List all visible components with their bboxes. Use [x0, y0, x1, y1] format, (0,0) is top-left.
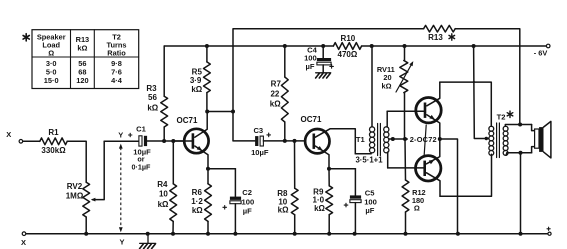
svg-text:1·2: 1·2 — [191, 197, 203, 206]
svg-text:kΩ: kΩ — [314, 204, 325, 213]
table footnote asterisk — [23, 34, 29, 41]
resistor R5 3.9k (Q1 collector load) — [190, 46, 210, 112]
speaker LS1 — [532, 121, 551, 157]
transformer T1 labels — [355, 135, 383, 164]
wire: Q1 collector node jog to C3 branch — [205, 110, 235, 114]
svg-text:kΩ: kΩ — [270, 100, 281, 109]
wire: Q4 collector to T2 primary bottom — [440, 154, 492, 196]
svg-text:22: 22 — [270, 90, 279, 99]
wire: C3 to Q2 base, node dots — [263, 139, 304, 143]
transformer T1 primary winding — [355, 46, 374, 154]
svg-text:R3: R3 — [146, 84, 157, 93]
svg-text:0·1µF: 0·1µF — [132, 163, 152, 172]
wire: input to R1 — [23, 140, 40, 142]
wire: Q2 emitter node — [327, 167, 355, 171]
svg-text:1MΩ: 1MΩ — [66, 191, 84, 200]
transistor Q3 OC72 (output, upper) — [387, 82, 441, 139]
terminal: -6V supply — [534, 44, 550, 57]
svg-text:2-OC72: 2-OC72 — [410, 135, 437, 144]
svg-text:C5: C5 — [365, 188, 375, 197]
svg-text:T2: T2 — [497, 113, 506, 122]
svg-text:10µF: 10µF — [251, 148, 269, 157]
node Y cut marks (dashed) — [118, 130, 124, 246]
resistor R6 1.2k (Q1 emitter) — [191, 169, 211, 234]
ground symbol under C4 — [316, 73, 331, 78]
svg-text:T1: T1 — [356, 135, 366, 144]
transformer T2 primary winding (tapped) — [489, 126, 494, 155]
svg-text:µF: µF — [365, 206, 374, 215]
transformer T1 secondary winding (centre-tapped) — [384, 111, 389, 168]
wire: feedback R13 to secondary top / speaker — [518, 123, 522, 127]
wire: R1 to RV2 top — [67, 141, 86, 182]
svg-text:R5: R5 — [192, 67, 203, 76]
wire: collector branch down to C3 — [233, 112, 255, 141]
svg-text:kΩ: kΩ — [278, 205, 289, 214]
capacitor C4 100uF (supply decoupling) — [304, 45, 333, 72]
capacitor C1 (input coupling, electrolytic) — [129, 124, 152, 171]
wire: RV2 wiper to C1 — [91, 141, 139, 201]
transformer T2 secondary winding — [503, 125, 531, 156]
transistor Q4 OC72 (output, lower) — [388, 139, 441, 196]
wire: secondary bottom to 0V rail — [519, 151, 523, 234]
resistor R4 10k (Q1 bias lower) — [157, 141, 176, 234]
svg-text:3·5·1+1: 3·5·1+1 — [355, 156, 383, 165]
capacitor C5 100uF (Q2 emitter bypass) — [344, 169, 377, 234]
terminal: 0V positive supply (bottom right) — [547, 227, 551, 235]
potentiometer RV2 1M (volume) — [66, 182, 90, 234]
wire: Q1 emitter node — [206, 167, 235, 171]
svg-text:Y: Y — [118, 130, 123, 139]
transformer T1 core — [378, 124, 381, 156]
svg-text:µF: µF — [243, 207, 252, 216]
wire: -6V supply rail — [164, 44, 546, 48]
wire: -6V rail to T2 centre tap — [473, 46, 489, 140]
svg-text:kΩ: kΩ — [77, 44, 87, 53]
svg-text:120: 120 — [76, 76, 88, 85]
svg-text:15·0: 15·0 — [44, 76, 59, 85]
svg-text:kΩ: kΩ — [192, 206, 203, 215]
svg-text:R13: R13 — [428, 33, 443, 42]
resistor R3 56k (Q1 bias upper) — [146, 46, 167, 141]
svg-text:R10: R10 — [341, 34, 356, 43]
ground symbol on 0V rail — [140, 234, 156, 249]
svg-text:X: X — [21, 238, 26, 247]
resistor R7 22k (Q2 bias upper) — [270, 46, 288, 141]
capacitor C2 100uF (Q1 emitter bypass) — [223, 169, 254, 234]
svg-text:100: 100 — [242, 197, 255, 206]
component selection table — [32, 30, 139, 89]
svg-text:R7: R7 — [271, 80, 282, 89]
wire: bottom 0V rail — [26, 232, 548, 236]
resistor R10 (supply decoupling) — [333, 34, 361, 59]
label: 2-OC72 output pair with leader line — [410, 125, 437, 156]
wire: emitters junction to 0V rail — [438, 137, 458, 234]
svg-text:C3: C3 — [253, 126, 263, 135]
svg-text:R6: R6 — [192, 188, 203, 197]
svg-text:C2: C2 — [242, 188, 252, 197]
svg-text:R4: R4 — [157, 180, 168, 189]
svg-text:10: 10 — [159, 190, 168, 199]
svg-text:kΩ: kΩ — [158, 200, 169, 209]
svg-text:Y: Y — [119, 237, 124, 246]
svg-text:kΩ: kΩ — [381, 82, 391, 91]
wire: upper feedback rail (Q1 collector to R13 to output) — [233, 29, 520, 125]
resistor R9 1.0k (Q2 emitter) — [313, 169, 333, 234]
svg-text:470Ω: 470Ω — [338, 50, 358, 59]
svg-text:Ω: Ω — [414, 204, 420, 213]
svg-text:Ω: Ω — [48, 49, 54, 58]
svg-text:4·4: 4·4 — [111, 76, 123, 85]
transistor Q1 OC71 (first AF amp) — [173, 112, 208, 169]
terminal: input X (top left) — [6, 130, 22, 143]
wire: T1 centre tap to bias node — [389, 137, 408, 141]
resistor R12 180 (bias lower) — [402, 139, 426, 234]
svg-text:kΩ: kΩ — [147, 103, 158, 112]
svg-text:C1: C1 — [136, 124, 146, 133]
transformer T2 label — [497, 111, 513, 122]
resistor R13 (feedback, in upper rail) — [424, 25, 456, 42]
svg-text:OC71: OC71 — [301, 115, 322, 124]
svg-text:- 6V: - 6V — [534, 49, 548, 58]
svg-text:OC71: OC71 — [177, 116, 198, 125]
transformer T2 core — [497, 123, 500, 158]
svg-text:Ratio: Ratio — [107, 49, 126, 58]
terminal: input ground X (bottom left) — [21, 232, 26, 247]
wire: C1 to Q1 base, node dots — [147, 139, 184, 143]
capacitor C3 10uF (interstage coupling) — [251, 126, 270, 157]
resistor R8 10k (Q2 bias lower) — [277, 141, 298, 234]
svg-text:330kΩ: 330kΩ — [41, 146, 66, 155]
svg-text:µF: µF — [305, 62, 314, 71]
potentiometer RV1 20k (bias) — [377, 46, 413, 139]
svg-text:X: X — [6, 130, 11, 139]
wire: Q3 collector to T2 primary top — [440, 82, 492, 126]
svg-text:RV2: RV2 — [67, 182, 83, 191]
svg-text:56: 56 — [148, 93, 157, 102]
transistor Q2 OC71 (driver) — [301, 115, 371, 169]
svg-text:kΩ: kΩ — [191, 85, 202, 94]
svg-text:R1: R1 — [48, 128, 59, 137]
resistor R1 330k — [40, 128, 67, 155]
